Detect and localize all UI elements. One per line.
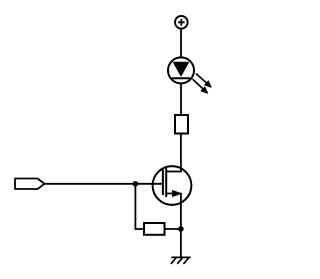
wire input to Q1 gate bbox=[45, 183, 163, 185]
wire V+ to LED anode bbox=[180, 29, 182, 58]
input terminal tag bbox=[15, 179, 45, 190]
ground bbox=[171, 257, 190, 263]
transistor Q1 N-MOSFET bbox=[153, 166, 192, 205]
wire R2 to source node bbox=[165, 228, 181, 230]
LED emission arrow 2 bbox=[193, 80, 208, 94]
power supply V+ terminal bbox=[175, 16, 188, 29]
LED D1 bbox=[168, 57, 194, 83]
junction source node bbox=[178, 226, 184, 232]
wire gate node down to resistor R2 bbox=[135, 184, 144, 229]
resistor R1 bbox=[175, 115, 188, 134]
resistor R2 bbox=[144, 223, 165, 235]
LED emission arrow 1 bbox=[197, 74, 212, 87]
junction gate node bbox=[133, 181, 139, 187]
wire LED cathode to resistor R1 bbox=[180, 83, 182, 115]
wire R1 to Q1 drain bbox=[180, 134, 182, 172]
wire Q1 source to ground node bbox=[180, 194, 182, 258]
